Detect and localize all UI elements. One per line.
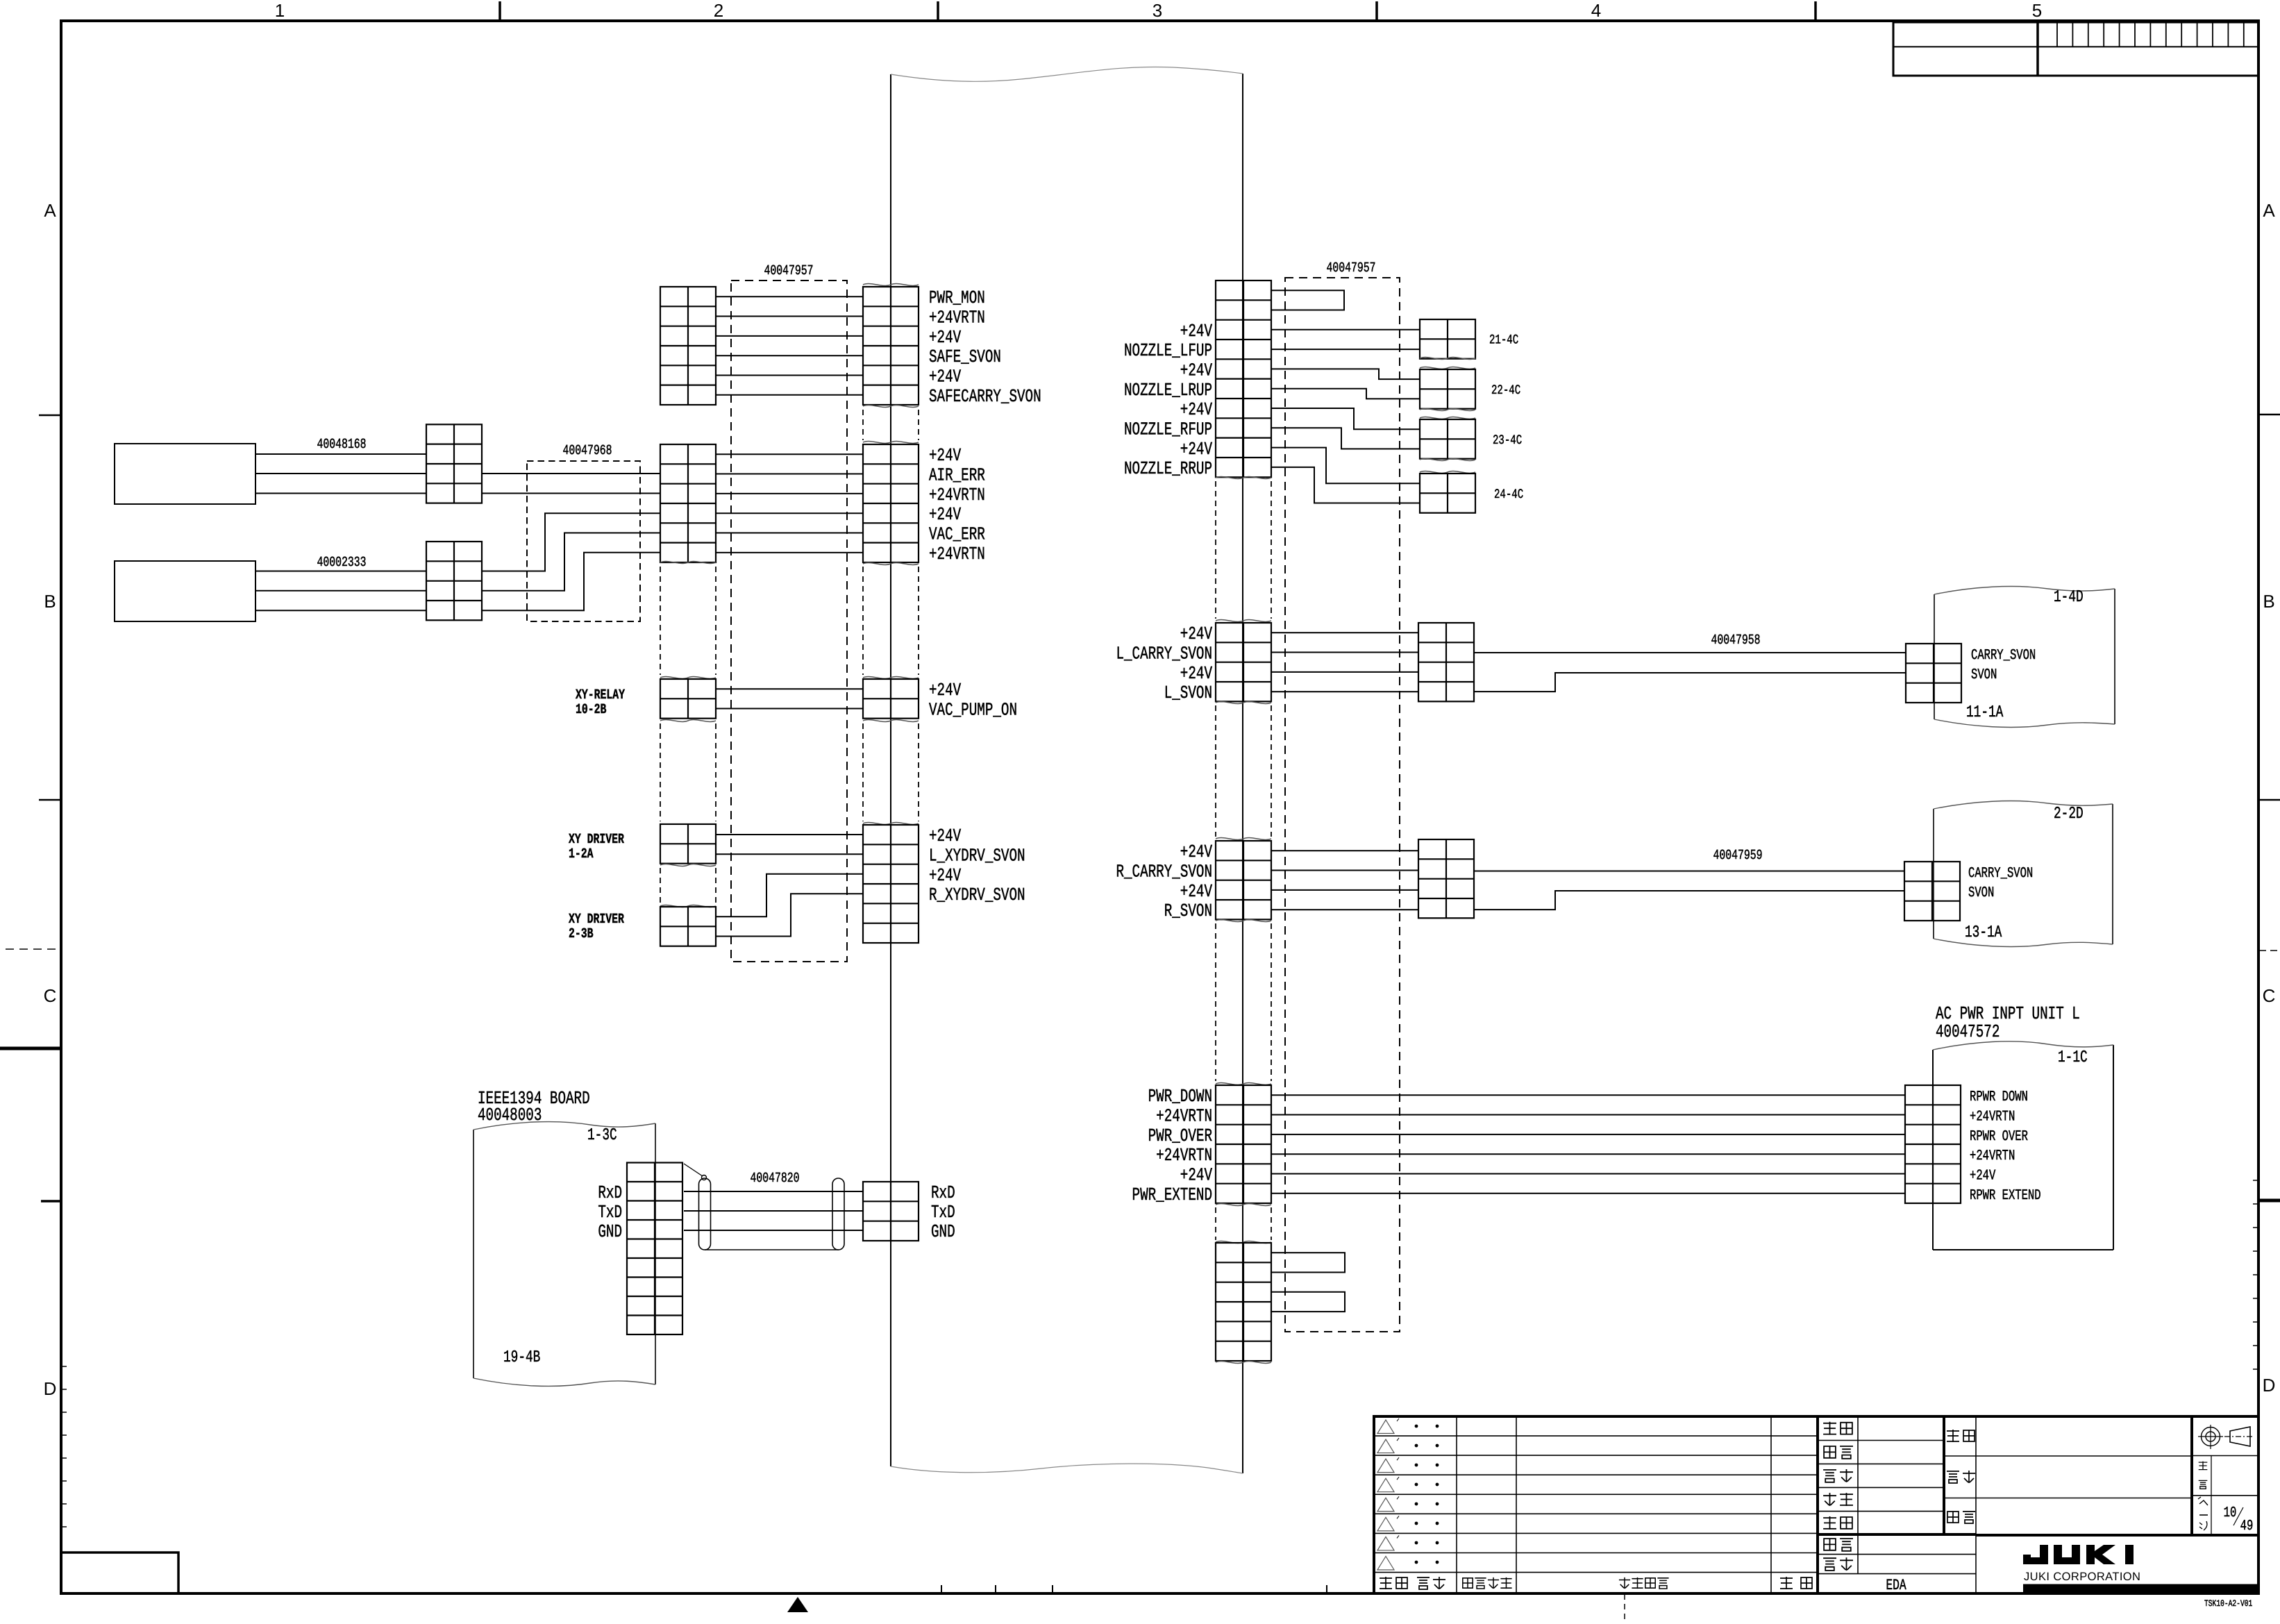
fold triangle bottom xyxy=(787,1597,808,1612)
labels VAC_PUMP group xyxy=(929,680,1017,720)
svg-text:1-4D: 1-4D xyxy=(2054,588,2084,607)
wavy breaks 21-4C/22-4C xyxy=(1420,358,1475,369)
svg-text:13-1A: 13-1A xyxy=(1965,923,2002,942)
wavy break RB2 bottom xyxy=(1216,702,1271,704)
svg-text:40047957: 40047957 xyxy=(764,263,813,279)
row letters left xyxy=(44,200,57,1399)
svg-text:2-2D: 2-2D xyxy=(2054,805,2084,823)
wavy break RB1 bottom xyxy=(1216,477,1271,479)
ruler ticks left border xyxy=(61,1366,67,1527)
dashed continuation L2-L3 xyxy=(660,567,661,675)
svg-text:+24V: +24V xyxy=(1180,321,1212,342)
bus connector R2 (AIR/VAC) xyxy=(863,444,919,562)
labels XYDRV group xyxy=(929,826,1025,905)
svg-text:10-2B: 10-2B xyxy=(576,702,606,718)
wavy break R3 top xyxy=(863,677,919,679)
cable 40047957 dashed box (right) xyxy=(1285,278,1400,1332)
svg-text:+24V: +24V xyxy=(929,504,961,525)
svg-text:11-1A: 11-1A xyxy=(1966,703,2004,722)
svg-text:24-4C: 24-4C xyxy=(1494,487,1523,502)
svg-text:+24V: +24V xyxy=(1180,623,1212,644)
projection symbol xyxy=(2192,1425,2258,1456)
dashed continuation R2-R3 xyxy=(862,567,864,675)
cable 40047957 dashed box (left) xyxy=(731,281,847,962)
unit 1-4D top wavy xyxy=(1934,587,2115,594)
dashed continuation RB1-RB2 xyxy=(1215,481,1216,619)
labels RxD/TxD/GND right xyxy=(931,1182,955,1242)
svg-text:2: 2 xyxy=(714,0,723,21)
unit 2-2D top wavy xyxy=(1934,801,2113,809)
svg-text:+24VRTN: +24VRTN xyxy=(929,308,985,328)
bus connector R3 (VAC_PUMP) xyxy=(863,679,919,719)
svg-text:L_XYDRV_SVON: L_XYDRV_SVON xyxy=(929,845,1025,866)
unit IEEE1394 right edge xyxy=(655,1123,656,1384)
ruler ticks right border xyxy=(2253,1180,2258,1369)
labels PWR_MON group xyxy=(929,287,1041,407)
main unit (bus) left edge xyxy=(890,74,891,1466)
svg-text:NOZZLE_RFUP: NOZZLE_RFUP xyxy=(1124,419,1212,440)
svg-text:+24V: +24V xyxy=(1180,842,1212,862)
svg-text:49: 49 xyxy=(2240,1518,2254,1534)
unit AC PWR box xyxy=(1933,1045,2113,1250)
svg-text:40048168: 40048168 xyxy=(317,437,366,453)
svg-text:RPWR EXTEND: RPWR EXTEND xyxy=(1970,1188,2041,1204)
svg-text:XY DRIVER: XY DRIVER xyxy=(569,912,624,928)
wires connector A to unit connector L2 xyxy=(482,474,660,494)
svg-text:+24V: +24V xyxy=(1180,881,1212,902)
svg-text:GND: GND xyxy=(931,1221,955,1242)
svg-text:A: A xyxy=(44,200,56,221)
dashed continuation L3-L4 xyxy=(660,723,661,821)
connector on 2-2D xyxy=(1904,862,1960,921)
labels CARRY_SVON/SVON 1-4D xyxy=(1971,648,2036,683)
unit 2-2D left edge xyxy=(1933,809,1934,939)
svg-text:JUKI CORPORATION: JUKI CORPORATION xyxy=(2024,1571,2140,1583)
svg-text:GND: GND xyxy=(598,1221,622,1242)
svg-text:L_SVON: L_SVON xyxy=(1164,683,1212,703)
unit 2-2D bottom wavy xyxy=(1934,939,2113,946)
wavy break R4 top xyxy=(863,823,919,825)
shield capsule left xyxy=(699,1178,711,1250)
svg-text:CARRY_SVON: CARRY_SVON xyxy=(1968,866,2033,882)
header 変更記事 xyxy=(1619,1577,1630,1589)
wires L3 to R3 xyxy=(716,689,863,708)
wavy break L3 top xyxy=(660,677,716,679)
wires NOZZLE group xyxy=(1271,330,1420,503)
unit AC PWR top wavy xyxy=(1933,1041,2113,1050)
svg-text:VAC_PUMP_ON: VAC_PUMP_ON xyxy=(929,700,1017,721)
unit connector L2 (AIR/VAC group) xyxy=(660,444,716,562)
wires IEEE1394 to bus xyxy=(684,1191,863,1230)
connector on 1-4D xyxy=(1906,644,1961,703)
wires L4/L5 to R4 xyxy=(716,835,863,937)
svg-text:+24VRTN: +24VRTN xyxy=(1156,1106,1212,1127)
unit 1-4D bottom wavy xyxy=(1934,719,2115,727)
connector 40047959 xyxy=(1418,839,1474,918)
svg-text:+24VRTN: +24VRTN xyxy=(929,485,985,505)
svg-text:D: D xyxy=(44,1378,57,1399)
svg-text:23-4C: 23-4C xyxy=(1493,433,1522,448)
svg-text:1-2A: 1-2A xyxy=(569,846,594,862)
wire SVON stepped to 1-4D xyxy=(1474,673,1906,692)
revision triangles xyxy=(1377,1418,1399,1570)
svg-text:2-3B: 2-3B xyxy=(569,926,594,942)
dashed continuation RB4-RB5 xyxy=(1215,1207,1216,1240)
svg-text:40047820: 40047820 xyxy=(750,1171,799,1187)
connector A (4 rows) xyxy=(426,424,482,503)
svg-text:+24VRTN: +24VRTN xyxy=(1156,1145,1212,1166)
svg-text:SVON: SVON xyxy=(1971,667,1997,683)
shield capsule right xyxy=(832,1178,844,1250)
wires RB2 to 40047958 xyxy=(1271,633,1418,692)
row boundary ticks right xyxy=(2258,415,2280,800)
revision table xyxy=(1374,1416,1818,1593)
svg-text:+24V: +24V xyxy=(929,826,961,846)
small connector 23-4C xyxy=(1420,419,1475,459)
svg-text:+24V: +24V xyxy=(929,680,961,701)
unit IEEE1394 top wavy xyxy=(473,1122,655,1130)
unit connector L5 (XY DRIVER 2) xyxy=(660,907,716,946)
svg-text:RPWR DOWN: RPWR DOWN xyxy=(1970,1089,2028,1105)
wires PWR group to AC unit xyxy=(1271,1095,1905,1194)
svg-text:PWR_DOWN: PWR_DOWN xyxy=(1148,1086,1212,1107)
fold mark dashed left xyxy=(0,949,61,1048)
revision date dots xyxy=(1415,1425,1439,1564)
unit IEEE1394 left edge xyxy=(473,1130,474,1378)
wires box2 to connector B xyxy=(255,571,426,611)
型式/品番/品名 rows xyxy=(1944,1416,2258,1593)
svg-text:B: B xyxy=(44,591,56,612)
svg-text:RPWR OVER: RPWR OVER xyxy=(1970,1129,2028,1145)
svg-text:+24VRTN: +24VRTN xyxy=(929,544,985,564)
svg-text:+24V: +24V xyxy=(1180,399,1212,420)
wavy break R2 top xyxy=(863,442,919,444)
unit 2-2D right edge xyxy=(2112,804,2113,944)
wavy break RB5 top xyxy=(1216,1241,1271,1244)
svg-text:21-4C: 21-4C xyxy=(1489,333,1518,348)
label XY DRIVER 2-3B xyxy=(569,912,624,942)
unit connector L1 (PWR_MON group) xyxy=(660,287,716,405)
bus connector R4 (XYDRV) xyxy=(863,825,919,943)
wire CARRY_SVON to 2-2D xyxy=(1474,871,1904,872)
bottom center fold dashed xyxy=(1624,1594,1625,1621)
wavy break L4 bottom xyxy=(660,864,716,867)
shield drain diagonal xyxy=(684,1164,703,1176)
dashed continuation R3-R4 xyxy=(862,723,864,821)
box lower-left (sensor) xyxy=(115,561,255,621)
connector 40047958 xyxy=(1418,623,1474,701)
wavy break R1 top xyxy=(863,284,919,286)
labels RPWR group xyxy=(1970,1089,2041,1204)
small connector 24-4C xyxy=(1420,474,1475,513)
svg-text:40047957: 40047957 xyxy=(1326,260,1375,276)
bus connector RB2 (L_CARRY group) xyxy=(1216,623,1271,701)
title IEEE1394 BOARD xyxy=(478,1088,590,1125)
wavy breaks 23-4C/24-4C xyxy=(1420,459,1475,474)
svg-text:R_XYDRV_SVON: R_XYDRV_SVON xyxy=(929,885,1025,905)
row letters right xyxy=(2263,200,2276,1396)
jumper stub RB1 rows1-2 xyxy=(1271,290,1344,310)
wire CARRY_SVON to 1-4D xyxy=(1474,652,1906,653)
svg-text:TSK10-A2-V01: TSK10-A2-V01 xyxy=(2204,1598,2252,1609)
wavy breaks 22-4C/23-4C xyxy=(1420,409,1475,419)
svg-text:XY DRIVER: XY DRIVER xyxy=(569,832,624,848)
main unit top wavy edge xyxy=(891,67,1243,81)
wavy break RB3 top xyxy=(1216,838,1271,840)
svg-text:NOZZLE_LFUP: NOZZLE_LFUP xyxy=(1124,340,1212,361)
jumper stub RB5 rows1-2 xyxy=(1271,1253,1345,1272)
header row 記号 日付 xyxy=(1380,1577,1445,1589)
wires RB3 to 40047959 xyxy=(1271,851,1418,910)
wavy break L5 top xyxy=(660,905,716,907)
bus connector RB1 (NOZZLE group) xyxy=(1216,281,1271,477)
bus connector RB5 (stub group) xyxy=(1216,1243,1271,1361)
svg-text:NOZZLE_LRUP: NOZZLE_LRUP xyxy=(1124,380,1212,401)
bus connector R1 (PWR_MON) xyxy=(863,287,919,405)
尺度 cell xyxy=(2192,1456,2258,1535)
unit 1-4D right edge xyxy=(2114,589,2115,724)
labels R_CARRY group xyxy=(1116,842,1212,921)
svg-text:1-3C: 1-3C xyxy=(587,1126,617,1145)
label XY DRIVER 1-2A xyxy=(569,832,624,862)
labels NOZZLE group xyxy=(1124,321,1212,479)
row boundary ticks left xyxy=(39,415,61,1201)
bus connector RxD/TxD/GND xyxy=(863,1182,919,1241)
labels CARRY_SVON/SVON 2-2D xyxy=(1968,866,2033,901)
unit 1-4D left edge xyxy=(1934,594,1935,719)
svg-text:PWR_MON: PWR_MON xyxy=(929,287,985,308)
connector on AC PWR unit xyxy=(1905,1085,1961,1203)
cable 40047968 dashed box xyxy=(527,461,640,621)
svg-text:+24V: +24V xyxy=(929,445,961,466)
svg-text:SAFE_SVON: SAFE_SVON xyxy=(929,346,1001,367)
wavy break R1 bottom xyxy=(863,405,919,408)
labels L_CARRY group xyxy=(1116,623,1212,703)
svg-text:R_CARRY_SVON: R_CARRY_SVON xyxy=(1116,862,1212,882)
dashed continuation RB2-RB3 xyxy=(1215,705,1216,837)
wires box1 to connector A xyxy=(255,454,426,494)
header 変更番号 xyxy=(1463,1578,1473,1588)
svg-text:PWR_OVER: PWR_OVER xyxy=(1148,1125,1212,1146)
main unit bottom wavy edge xyxy=(891,1464,1243,1473)
wires L2 to R2 xyxy=(716,454,863,553)
stepped wires connector B to unit connector L2 xyxy=(482,513,660,610)
shield bottom wire xyxy=(705,1249,839,1250)
top right header table xyxy=(1893,22,2258,76)
unit connector L4 (XY DRIVER 1) xyxy=(660,824,716,864)
svg-text:+24V: +24V xyxy=(1970,1169,1996,1184)
svg-text:10: 10 xyxy=(2224,1505,2237,1521)
svg-text:AIR_ERR: AIR_ERR xyxy=(929,465,985,486)
svg-text:+24VRTN: +24VRTN xyxy=(1970,1110,2015,1125)
svg-text:NOZZLE_RRUP: NOZZLE_RRUP xyxy=(1124,458,1212,479)
svg-text:+24V: +24V xyxy=(929,327,961,348)
svg-text:40047958: 40047958 xyxy=(1711,633,1760,648)
wire SVON stepped to 2-2D xyxy=(1474,891,1904,910)
svg-text:TxD: TxD xyxy=(931,1202,955,1223)
bus connector RB3 (R_CARRY group) xyxy=(1216,841,1271,919)
svg-text:+24V: +24V xyxy=(929,865,961,886)
svg-text:1: 1 xyxy=(275,0,285,21)
shield drain dot xyxy=(702,1175,707,1180)
column ticks top xyxy=(500,1,1816,21)
labels RxD/TxD/GND left xyxy=(598,1182,622,1242)
bottom-left corner box xyxy=(61,1552,178,1593)
svg-text:+24V: +24V xyxy=(1180,439,1212,460)
svg-text:40002333: 40002333 xyxy=(317,555,366,571)
svg-text:D: D xyxy=(2263,1375,2276,1396)
wires L1 to R1 xyxy=(716,296,863,395)
approval labels 承認/検図/設計/製図/作成/保管/類似 xyxy=(1823,1422,1853,1571)
wavy break RB4 top xyxy=(1216,1083,1271,1085)
svg-text:SAFECARRY_SVON: SAFECARRY_SVON xyxy=(929,386,1041,407)
svg-text:1-1C: 1-1C xyxy=(2058,1048,2088,1067)
labels AIR/VAC group xyxy=(929,445,985,564)
svg-text:PWR_EXTEND: PWR_EXTEND xyxy=(1132,1184,1212,1205)
svg-text:4: 4 xyxy=(1591,0,1601,21)
svg-text:RxD: RxD xyxy=(931,1182,955,1203)
small connector 21-4C xyxy=(1420,319,1475,359)
svg-text:3: 3 xyxy=(1152,0,1162,21)
wavy break RB2 top xyxy=(1216,620,1271,622)
ページ cell and 10/49 xyxy=(2192,1497,2258,1534)
svg-text:+24VRTN: +24VRTN xyxy=(1970,1148,2015,1164)
wavy break RB4 bottom xyxy=(1216,1204,1271,1206)
main unit (bus) right edge xyxy=(1242,74,1243,1473)
labels 型式/品番/品名 xyxy=(1947,1430,1975,1523)
svg-text:C: C xyxy=(2263,985,2276,1006)
approval rows xyxy=(1818,1416,1976,1574)
svg-text:+24V: +24V xyxy=(1180,1165,1212,1186)
unit IEEE1394 bottom wavy xyxy=(473,1378,655,1386)
svg-text:40047959: 40047959 xyxy=(1713,848,1762,864)
title block outer xyxy=(1374,1416,2258,1593)
svg-text:SVON: SVON xyxy=(1968,885,1994,901)
connector on IEEE1394 board xyxy=(627,1163,682,1335)
svg-text:VAC_ERR: VAC_ERR xyxy=(929,524,985,545)
bus connector RB4 (PWR group) xyxy=(1216,1085,1271,1203)
bottom border ticks xyxy=(941,1585,1327,1593)
wavy break R3 bottom xyxy=(863,720,919,722)
header 担当 xyxy=(1780,1577,1812,1589)
jumper stub RB5 rows3-4 xyxy=(1271,1292,1345,1312)
wavy break RB3 bottom xyxy=(1216,920,1271,922)
JUKI logo xyxy=(2023,1545,2134,1564)
connector B (4 rows) xyxy=(426,542,482,620)
label XY-RELAY 10-2B xyxy=(576,687,625,718)
svg-text:22-4C: 22-4C xyxy=(1491,383,1520,398)
wavy break RB5 bottom xyxy=(1216,1362,1271,1364)
svg-text:+24V: +24V xyxy=(1180,663,1212,684)
dashed continuation R1-R2 xyxy=(862,410,864,440)
box upper-left (sensor) xyxy=(115,444,255,504)
svg-text:C: C xyxy=(44,985,57,1006)
svg-text:5: 5 xyxy=(2032,0,2042,21)
svg-text:CARRY_SVON: CARRY_SVON xyxy=(1971,648,2036,664)
column numbers xyxy=(275,0,2042,21)
svg-text:R_SVON: R_SVON xyxy=(1164,901,1212,921)
svg-text:EDA: EDA xyxy=(1886,1577,1906,1594)
wavy break L3 bottom xyxy=(660,720,716,722)
svg-text:RxD: RxD xyxy=(598,1182,622,1203)
svg-text:TxD: TxD xyxy=(598,1202,622,1223)
svg-text:40047572: 40047572 xyxy=(1936,1021,2000,1042)
fold mark dashed right xyxy=(2258,951,2280,1200)
svg-text:L_CARRY_SVON: L_CARRY_SVON xyxy=(1116,644,1212,664)
wavy break R2 bottom xyxy=(863,563,919,565)
dashed continuation RB3-RB4 xyxy=(1215,923,1216,1081)
svg-text:19-4B: 19-4B xyxy=(503,1348,540,1367)
unit connector L3 (XY-RELAY) xyxy=(660,679,716,719)
dashed continuation L4-L5 xyxy=(660,868,661,904)
svg-text:40047968: 40047968 xyxy=(562,443,612,459)
svg-text:B: B xyxy=(2263,591,2274,612)
svg-text:A: A xyxy=(2263,200,2275,221)
title AC PWR INPT UNIT L xyxy=(1936,1003,2080,1042)
svg-text:+24V: +24V xyxy=(1180,360,1212,380)
svg-text:XY-RELAY: XY-RELAY xyxy=(576,687,625,703)
wavy break L2 bottom xyxy=(660,562,716,564)
svg-text:+24V: +24V xyxy=(929,367,961,387)
small connector 22-4C xyxy=(1420,369,1475,409)
EDA cell xyxy=(1886,1577,1906,1594)
labels PWR group xyxy=(1132,1086,1213,1205)
JUKI black bar xyxy=(2023,1584,2258,1595)
